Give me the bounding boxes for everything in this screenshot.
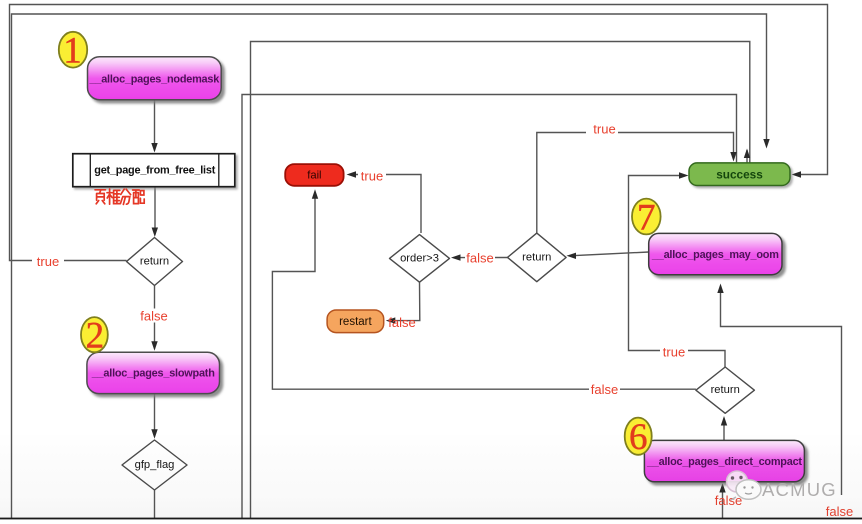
svg-text:1: 1 xyxy=(63,31,82,72)
svg-text:__alloc_pages_slowpath: __alloc_pages_slowpath xyxy=(91,368,215,380)
svg-text:get_page_from_free_list: get_page_from_free_list xyxy=(94,165,215,177)
svg-text:false: false xyxy=(140,309,167,324)
svg-text:restart: restart xyxy=(339,316,372,328)
svg-text:__alloc_pages_may_oom: __alloc_pages_may_oom xyxy=(651,249,779,261)
svg-text:false: false xyxy=(388,315,415,330)
svg-text:order>3: order>3 xyxy=(400,252,439,264)
svg-text:7: 7 xyxy=(637,198,656,239)
svg-text:success: success xyxy=(716,168,763,182)
svg-text:return: return xyxy=(522,251,551,263)
svg-text:true: true xyxy=(663,344,685,359)
svg-text:true: true xyxy=(361,169,383,184)
svg-text:fail: fail xyxy=(307,169,321,181)
svg-text:false: false xyxy=(466,251,493,266)
svg-text:return: return xyxy=(711,384,740,396)
svg-text:return: return xyxy=(140,256,169,268)
svg-text:2: 2 xyxy=(86,316,105,357)
svg-text:__alloc_pages_nodemask: __alloc_pages_nodemask xyxy=(89,74,221,86)
svg-text:true: true xyxy=(37,254,59,269)
svg-text:false: false xyxy=(591,382,618,397)
svg-text:true: true xyxy=(593,122,615,137)
